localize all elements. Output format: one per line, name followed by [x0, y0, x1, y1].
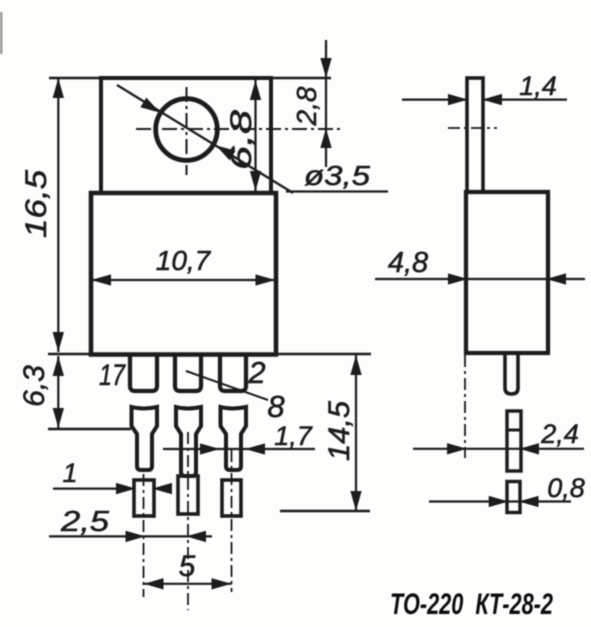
svg-text:1: 1	[62, 458, 77, 488]
lead 1 stub	[130, 355, 157, 391]
svg-text:14,5: 14,5	[323, 401, 356, 461]
lead 2 stub	[175, 355, 201, 391]
dimension 2,4 line	[413, 448, 584, 450]
svg-text:17: 17	[99, 359, 126, 392]
dimension 1,7 line	[163, 448, 315, 450]
side view lead tip section	[507, 482, 520, 513]
side view lead upper	[505, 355, 518, 394]
lead 2 centerline	[187, 432, 189, 610]
svg-text:6,3: 6,3	[18, 365, 51, 407]
side view: tab outline	[467, 78, 483, 192]
lead 1 centerline	[143, 474, 145, 597]
dimension 6,8 line	[254, 80, 256, 191]
side view seating plane dashed line	[464, 355, 466, 458]
lead 3 shoulder	[221, 407, 247, 470]
lead 1 tip section	[134, 480, 154, 516]
lead 3 tip section	[222, 480, 241, 516]
svg-text:2,5: 2,5	[60, 506, 110, 538]
dimension 5 line	[144, 583, 232, 585]
svg-text:2: 2	[247, 355, 265, 390]
pin label 8 leader	[186, 371, 268, 400]
dimension 10,7 line	[91, 279, 276, 281]
svg-text:10,7: 10,7	[156, 245, 212, 276]
lead 2 tip section	[178, 476, 198, 514]
hole centerline horizontal	[136, 128, 340, 130]
scan artifact left edge	[0, 12, 3, 54]
front view: body bottom extension right	[276, 353, 371, 355]
front view: body outline	[91, 193, 276, 355]
svg-text:1,4: 1,4	[519, 71, 557, 101]
dimension 4,8 line	[375, 278, 585, 280]
dimension label o3,5 underline	[286, 190, 388, 192]
svg-text:ТО-220 КТ-28-2: ТО-220 КТ-28-2	[390, 588, 553, 621]
side view hole centerline	[448, 127, 497, 129]
hole diameter leader diagonal	[117, 85, 293, 193]
dimension 2,5 line	[49, 535, 212, 537]
dimension 14,5 lower reference line	[280, 510, 370, 512]
front view: tab top extension line left	[49, 77, 101, 79]
dimension 6,3 line	[57, 356, 59, 428]
mounting hole	[156, 99, 218, 161]
dimension 6,3 lower reference line	[48, 428, 131, 430]
dimension 2,8 line	[325, 40, 327, 167]
svg-text:4,8: 4,8	[388, 247, 428, 279]
svg-text:ø3,5: ø3,5	[304, 160, 370, 191]
dimension 0,8 line	[429, 500, 571, 502]
dimension 1,4 line right	[484, 98, 567, 100]
dimension 1,4 line left	[402, 98, 466, 100]
front view: tab top extension line right	[271, 77, 331, 79]
side view: body outline	[466, 192, 548, 353]
dimension 1 line	[53, 488, 133, 490]
svg-text:2,4: 2,4	[540, 419, 579, 449]
side view lead middle section	[507, 411, 521, 471]
svg-text:16,5: 16,5	[20, 170, 53, 238]
svg-text:5: 5	[179, 550, 196, 583]
lead 2 shoulder	[176, 407, 201, 476]
dimension 14,5 line	[355, 355, 357, 511]
lead 3 stub	[220, 355, 246, 391]
lead 1 shoulder	[132, 407, 158, 470]
svg-text:8: 8	[267, 389, 285, 424]
front view: body bottom extension left	[48, 353, 91, 355]
hole centerline vertical	[186, 87, 188, 175]
svg-text:6,8: 6,8	[225, 110, 258, 170]
side view lead middle section break line	[507, 429, 521, 432]
svg-text:1,7: 1,7	[274, 421, 313, 451]
svg-text:2,8: 2,8	[291, 86, 322, 126]
svg-text:0,8: 0,8	[547, 473, 585, 503]
front view: mounting tab outline	[101, 78, 271, 193]
lead 3 centerline	[231, 450, 233, 592]
dimension 16,5 line	[57, 78, 59, 352]
